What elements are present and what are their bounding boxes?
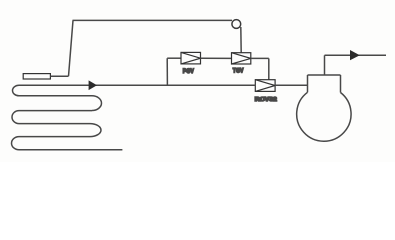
wire into PGV — [167, 57, 181, 59]
coil left U-turn 3 — [12, 137, 19, 150]
wire drop from circle to TGV — [240, 27, 242, 53]
coil line 3 — [19, 110, 92, 112]
wire riser left (slanted) — [69, 20, 74, 76]
wire top right — [325, 54, 387, 56]
coil left U-turn 1 — [13, 85, 19, 96]
main line coil outlet to RCV32 — [19, 84, 255, 86]
coil right U-turn 2 — [90, 124, 101, 137]
arrow top right — [350, 50, 360, 60]
svg-text:TGV: TGV — [233, 69, 244, 75]
coil line 6 (bottom, exits right) — [19, 149, 122, 151]
coil line 2 — [19, 95, 92, 97]
arrow on main line — [89, 80, 97, 90]
vessel body (circle arc) — [297, 92, 351, 141]
wire drop to RCV32 — [268, 58, 270, 79]
vessel neck left side — [307, 75, 309, 92]
fitting circle — [232, 20, 241, 29]
wire riser from vessel — [324, 55, 326, 75]
wire RCV32 to vessel — [275, 84, 307, 86]
wire sensor to riser — [50, 75, 68, 77]
valve RCV32 — [255, 80, 275, 92]
wire top horizontal — [73, 19, 233, 21]
wire TGV right — [251, 57, 269, 59]
wire riser from main line to PGV — [166, 58, 168, 85]
coil line 4 — [19, 123, 90, 125]
wire PGV to TGV — [201, 57, 232, 59]
vessel neck top — [308, 74, 341, 76]
svg-text:PGV: PGV — [183, 69, 194, 75]
coil right U-turn 1 — [92, 96, 101, 111]
valve TGV — [232, 53, 251, 64]
sensor TE (small rectangle top-left) — [23, 74, 50, 79]
coil left U-turn 2 — [12, 111, 19, 124]
valve PGV — [181, 52, 201, 64]
vessel neck right side — [340, 75, 342, 93]
svg-text:RCV32: RCV32 — [255, 97, 277, 103]
coil line 5 — [19, 136, 90, 138]
